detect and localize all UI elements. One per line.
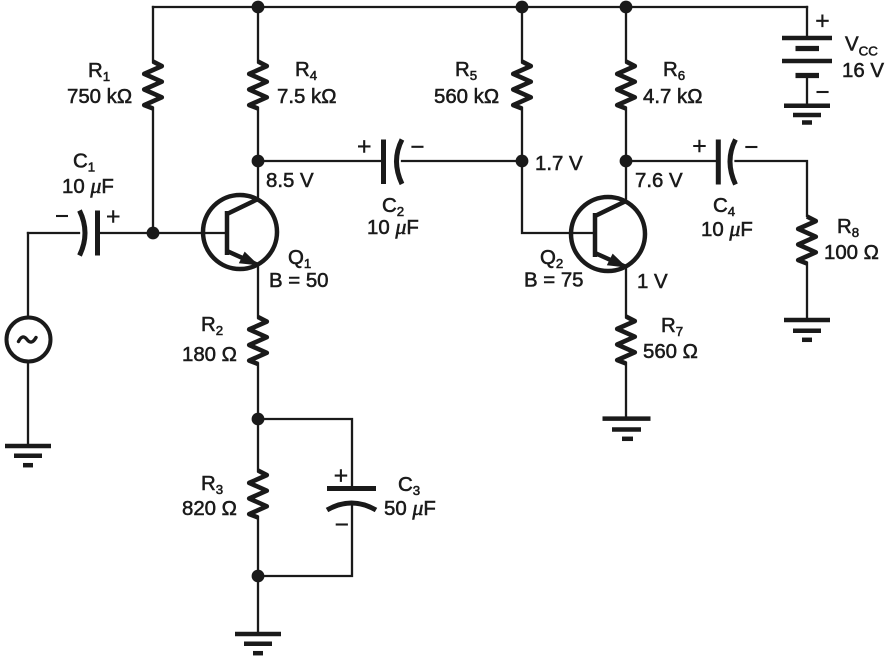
ground below R7 bbox=[603, 419, 651, 439]
svg-text:R5: R5 bbox=[455, 59, 477, 83]
node input C1/R1 bbox=[147, 227, 160, 240]
C2 plus sign bbox=[358, 140, 371, 153]
resistor R5 bbox=[513, 62, 531, 109]
node B R3/C3 ground bbox=[252, 570, 265, 583]
battery minus sign bbox=[817, 91, 829, 93]
svg-text:10 μF: 10 μF bbox=[701, 216, 753, 241]
battery VCC bbox=[782, 38, 832, 76]
wire 8.5V node to Q1 collector bbox=[257, 161, 259, 200]
svg-text:1 V: 1 V bbox=[637, 271, 668, 293]
wire Q1 emitter to R2 bbox=[257, 265, 259, 318]
wire R6 bottom to 7.6V node bbox=[625, 108, 627, 161]
wire C2 to 1.7V node bbox=[402, 160, 522, 162]
resistor R2 bbox=[249, 317, 267, 364]
svg-text:R8: R8 bbox=[837, 216, 859, 240]
node top rail at R5 bbox=[516, 1, 529, 14]
node top rail at R6 bbox=[620, 1, 633, 14]
node 7.6V bbox=[620, 155, 633, 168]
AC source bbox=[7, 318, 51, 362]
capacitor C2 bbox=[384, 140, 403, 185]
transistor Q2 bbox=[571, 197, 645, 271]
wire R3 bottom to node B bbox=[257, 517, 259, 576]
svg-text:Q2: Q2 bbox=[540, 247, 563, 271]
wire R4 column top bbox=[257, 7, 259, 62]
ground below AC source bbox=[5, 446, 51, 465]
C1 minus sign bbox=[56, 215, 68, 217]
capacitor C1 bbox=[80, 211, 98, 256]
svg-text:4.7 kΩ: 4.7 kΩ bbox=[643, 86, 702, 108]
resistor R3 bbox=[249, 471, 267, 518]
wire Q2 emitter to R7 bbox=[625, 267, 627, 317]
wire 7.6V node to C4 bbox=[626, 160, 716, 162]
wire R1 bottom to input node bbox=[152, 108, 154, 233]
svg-text:B = 75: B = 75 bbox=[524, 270, 584, 292]
C1 plus sign bbox=[107, 210, 120, 223]
svg-text:16 V: 16 V bbox=[842, 60, 884, 82]
resistor R8 bbox=[798, 217, 816, 264]
wire R5 column top bbox=[521, 7, 523, 62]
ground below R8 bbox=[784, 320, 830, 340]
capacitor C3 bbox=[327, 489, 376, 511]
wire R8 bottom to ground bbox=[806, 263, 808, 318]
wire R2 bottom to node A bbox=[257, 364, 259, 420]
svg-text:R4: R4 bbox=[295, 59, 317, 83]
C2 minus sign bbox=[411, 146, 423, 148]
C4 plus sign bbox=[693, 140, 706, 153]
wire R5 bottom to 1.7V node bbox=[521, 108, 523, 161]
svg-text:B = 50: B = 50 bbox=[269, 270, 329, 292]
node top rail at R4 bbox=[252, 1, 265, 14]
svg-text:VCC: VCC bbox=[845, 34, 878, 59]
svg-text:R2: R2 bbox=[201, 314, 223, 338]
transistor Q1 bbox=[203, 195, 277, 269]
svg-text:100 Ω: 100 Ω bbox=[824, 242, 879, 264]
svg-text:750 kΩ: 750 kΩ bbox=[67, 86, 132, 108]
wire node B to ground bbox=[257, 576, 259, 633]
resistor R7 bbox=[617, 317, 635, 364]
svg-text:R3: R3 bbox=[201, 473, 223, 497]
C4 minus sign bbox=[745, 146, 757, 148]
wire 1.7V node down and right to Q2 base bbox=[522, 161, 595, 233]
svg-text:10 μF: 10 μF bbox=[367, 214, 419, 239]
battery plus sign bbox=[816, 15, 829, 28]
wire C3 bottom to node B bbox=[258, 506, 352, 576]
svg-text:10 μF: 10 μF bbox=[62, 173, 114, 198]
wire C4 to R8 bbox=[736, 161, 808, 216]
resistor R4 bbox=[249, 62, 267, 109]
wire top supply rail bbox=[153, 6, 807, 8]
svg-text:Q1: Q1 bbox=[288, 247, 311, 271]
C3 minus sign bbox=[336, 523, 348, 525]
wire R7 bottom to ground bbox=[625, 363, 627, 417]
svg-text:R7: R7 bbox=[661, 315, 683, 339]
svg-text:560 kΩ: 560 kΩ bbox=[434, 86, 499, 108]
wire 7.6V node to Q2 collector bbox=[625, 161, 627, 201]
svg-text:R6: R6 bbox=[663, 59, 685, 83]
wire R1 column top bbox=[152, 7, 154, 62]
C3 plus sign bbox=[335, 469, 348, 482]
svg-text:C1: C1 bbox=[73, 151, 95, 175]
wire R6 column top bbox=[625, 7, 627, 62]
node 8.5V bbox=[252, 155, 265, 168]
svg-text:820 Ω: 820 Ω bbox=[182, 498, 237, 520]
wire top rail to battery bbox=[806, 7, 808, 36]
svg-text:560 Ω: 560 Ω bbox=[643, 341, 698, 363]
node A R2/R3/C3 bbox=[252, 413, 265, 426]
wire C1 to Q1 base bbox=[98, 232, 228, 234]
wire AC source to ground bbox=[27, 362, 29, 445]
svg-text:180 Ω: 180 Ω bbox=[182, 344, 237, 366]
wire node A to R3 bbox=[257, 419, 259, 471]
svg-text:R1: R1 bbox=[88, 60, 110, 84]
capacitor C4 bbox=[718, 140, 735, 185]
svg-text:8.5 V: 8.5 V bbox=[266, 170, 314, 192]
wire R4 bottom to 8.5V node bbox=[257, 108, 259, 161]
wire 8.5V node to C2 bbox=[258, 160, 381, 162]
ground below battery bbox=[784, 106, 830, 123]
node 1.7V bbox=[516, 155, 529, 168]
ground below R3 node B bbox=[235, 634, 281, 653]
svg-text:7.5 kΩ: 7.5 kΩ bbox=[277, 86, 336, 108]
svg-text:50 μF: 50 μF bbox=[384, 495, 436, 520]
wire node A to C3 bbox=[258, 419, 352, 486]
resistor R6 bbox=[617, 62, 635, 109]
wire battery negative to ground bbox=[806, 78, 808, 104]
wire input source to C1 bbox=[28, 232, 79, 234]
svg-text:1.7 V: 1.7 V bbox=[535, 153, 583, 175]
resistor R1 bbox=[144, 62, 162, 109]
svg-text:7.6 V: 7.6 V bbox=[635, 170, 683, 192]
wire input column to AC source bbox=[27, 233, 29, 318]
